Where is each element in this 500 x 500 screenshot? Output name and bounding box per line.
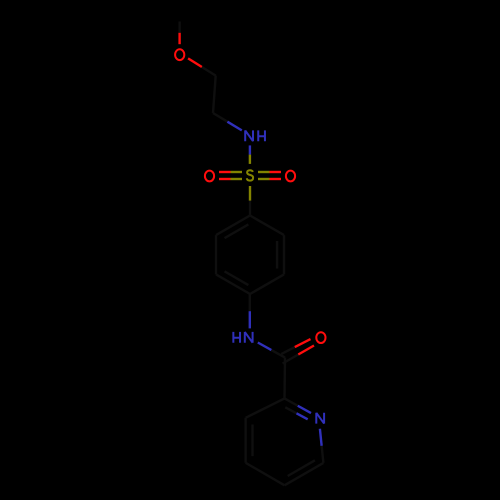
atom label O sulfonyl right <box>286 171 295 182</box>
pyridine C2=N main line blue half <box>298 406 311 413</box>
pyridine C2=N inner double line blue half <box>297 413 308 419</box>
pyridine edge C5-C4 <box>246 463 285 486</box>
wire C(=O)-C2 pyridine <box>283 358 286 399</box>
wire S-C(ring) olive half <box>249 186 251 201</box>
S=O left double bond upper line <box>231 171 243 173</box>
atom label O carbonyl <box>316 332 325 343</box>
pyridine C2=N inner double line gray half <box>285 407 296 413</box>
pyridine C3=C4 inner double line <box>251 425 253 457</box>
wire C(ring)-N amide (gray half) <box>249 294 251 311</box>
S=O right double bond upper line <box>258 171 270 173</box>
wire CH3-O (gray half) <box>178 22 180 33</box>
C=O double bond lower line gray half <box>283 355 299 364</box>
benzene edge B-LL inner double line <box>225 271 249 285</box>
pyridine N-C6 gray half <box>322 446 324 463</box>
atom label H of amide HN <box>233 332 240 343</box>
wire CH2-N (blue half) <box>227 122 241 131</box>
benzene edge UL-T <box>216 216 250 236</box>
wire N-S (blue half) <box>249 145 251 154</box>
C=O double bond lower line red half <box>298 346 314 355</box>
pyridine edge C3-C2 <box>246 398 285 417</box>
wire O-CH2 (gray half) <box>202 67 216 76</box>
pyridine N-C6 blue half <box>320 429 322 446</box>
C=O double bond upper line gray half <box>281 347 295 354</box>
benzene edge UR-LR inner double line <box>276 241 278 269</box>
atom label N of sulfonamide NH <box>245 130 253 141</box>
benzene edge UL-T inner double line <box>225 224 249 238</box>
pyridine C2=N main line gray half <box>285 398 298 405</box>
wire N-C(=O) blue half <box>258 343 272 351</box>
benzene edge LL-UL <box>215 235 217 274</box>
wire CH2-CH2 <box>213 76 216 113</box>
wire S-C(ring) gray half <box>249 201 251 216</box>
atom label H of sulfonamide NH <box>258 130 265 141</box>
wire N-S (olive half) <box>249 155 251 164</box>
wire N-C(=O) gray half <box>271 350 285 358</box>
S=O left double bond lower line <box>231 178 243 180</box>
atom label S sulfonyl <box>247 170 253 180</box>
wire C(ring)-N amide (blue half) <box>249 311 251 328</box>
benzene edge T-UR <box>250 216 284 236</box>
S=O right double bond lower line <box>258 178 270 180</box>
benzene edge LR-B <box>250 274 284 294</box>
atom label N pyridine <box>316 413 324 424</box>
C=O double bond upper line red half <box>295 339 311 347</box>
atom label O methoxy <box>175 49 184 60</box>
atom label N of amide HN <box>245 332 253 343</box>
pyridine edge C6-C5 <box>285 463 324 485</box>
wire O-CH2 (red half) <box>188 58 202 67</box>
atom label O sulfonyl left <box>205 171 214 182</box>
pyridine C5=C6 inner double line <box>288 460 315 476</box>
pyridine edge C4-C3 <box>244 418 246 463</box>
wire CH2-N (gray half) <box>213 113 227 122</box>
benzene edge B-LL <box>216 274 250 294</box>
benzene edge UR-LR <box>283 235 285 274</box>
wire CH3-O (red half) <box>178 33 180 44</box>
